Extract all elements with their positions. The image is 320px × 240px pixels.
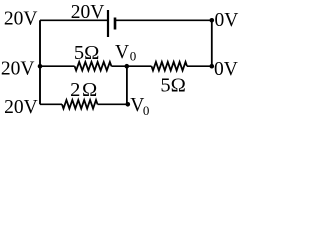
node V0 bottom dot [126, 102, 131, 107]
wire R1 to node V0 [111, 65, 151, 67]
node 0V top-right dot [210, 18, 215, 23]
wire right rail vertical [211, 20, 213, 66]
svg-text:2Ω: 2Ω [70, 79, 99, 101]
svg-text:5Ω: 5Ω [160, 75, 186, 97]
svg-text:0: 0 [130, 49, 137, 64]
svg-text:20V: 20V [4, 9, 38, 30]
svg-text:0V: 0V [215, 10, 239, 31]
battery B1 short plate [114, 18, 117, 30]
svg-text:20V: 20V [71, 2, 105, 23]
wire top-left horizontal (left rail to battery) [40, 19, 107, 21]
node V0 middle dot [125, 64, 130, 69]
resistor R1 5ohm zigzag [75, 62, 112, 71]
svg-text:20V: 20V [1, 58, 35, 79]
svg-text:5Ω: 5Ω [74, 42, 100, 64]
svg-text:0V: 0V [214, 59, 238, 80]
wire middle-left (rail to R1) [40, 65, 75, 67]
battery B1 long plate [107, 10, 109, 37]
wire R2 to right rail [187, 65, 212, 67]
svg-text:V: V [115, 42, 129, 63]
wire top-right horizontal (battery to 0V node) [115, 19, 212, 21]
node 0V mid-right dot [210, 64, 215, 69]
svg-text:20V: 20V [4, 97, 38, 118]
svg-text:0: 0 [143, 103, 150, 118]
resistor R2 5ohm zigzag [152, 62, 188, 71]
wire left rail vertical [39, 20, 41, 104]
resistor R3 2ohm zigzag [62, 100, 98, 109]
wire bottom-left (rail to R3) [40, 103, 62, 105]
wire R3 to node V0 bottom [98, 103, 128, 105]
wire link V0 middle to V0 bottom [126, 66, 128, 104]
junction dot left rail middle [38, 64, 43, 69]
